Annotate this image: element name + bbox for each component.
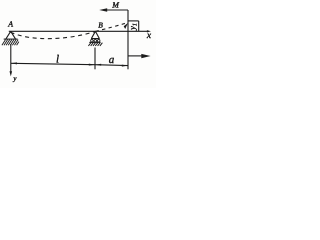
dimension extension line below B	[94, 48, 96, 70]
beam axis (x axis line)	[9, 30, 149, 32]
free end vertical line (moment lever / extension line)	[127, 10, 129, 69]
moment M arrowhead	[99, 8, 107, 11]
support B ground line	[89, 41, 100, 43]
svg-text:x: x	[146, 31, 152, 41]
dimension a right arrowhead	[122, 65, 128, 67]
support A ground line	[4, 38, 18, 40]
support A hatching	[2, 40, 19, 46]
support B hatching	[88, 43, 102, 46]
y1 dimension right line	[138, 21, 140, 31]
support A pin triangle	[6, 31, 16, 39]
svg-text:A: A	[7, 20, 13, 29]
svg-text:a: a	[109, 54, 115, 66]
deflection curve A to B (dashed)	[11, 31, 96, 38]
support B roller triangle	[91, 31, 100, 38]
deflection curve end arrowhead	[124, 23, 128, 29]
svg-text:B: B	[98, 21, 103, 30]
deflection curve B to free end (dashed)	[95, 23, 126, 31]
y axis line	[10, 44, 12, 74]
dimension l right arrowhead	[89, 64, 95, 66]
svg-text:l: l	[56, 54, 59, 66]
dimension line l	[11, 63, 95, 64]
dimension a left arrowhead	[95, 64, 101, 66]
svg-text:M: M	[111, 1, 120, 10]
support B rollers	[91, 39, 94, 42]
dimension l left arrowhead	[11, 62, 17, 64]
moment M arm line	[104, 9, 129, 11]
x1 axis arrowhead	[141, 54, 150, 58]
y1 dimension top line	[128, 20, 139, 22]
y axis arrowhead	[10, 71, 13, 76]
dimension line a	[95, 64, 128, 67]
x1 axis line at free end	[128, 55, 144, 57]
x axis arrowhead	[147, 30, 151, 32]
